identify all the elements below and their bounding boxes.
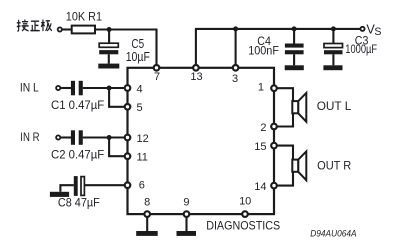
pin 15	[271, 143, 277, 149]
ground below pin8	[136, 231, 158, 236]
ground below pin9	[177, 231, 197, 236]
svg-text:1: 1	[258, 82, 264, 94]
svg-text:11: 11	[137, 152, 148, 164]
wire IN L to C1	[61, 87, 71, 89]
wire IN R to C2	[61, 136, 71, 138]
ground below C4	[285, 65, 304, 70]
wire C3 top lead	[332, 29, 334, 44]
svg-text:12: 12	[137, 133, 149, 145]
svg-text:9: 9	[183, 197, 189, 209]
wire C2 to pin12	[83, 136, 124, 138]
terminal Vs	[360, 27, 364, 31]
svg-text:IN L: IN L	[20, 80, 39, 94]
svg-text:3: 3	[232, 73, 238, 85]
capacitor C4	[285, 44, 304, 66]
svg-text:10: 10	[239, 196, 251, 208]
svg-text:15: 15	[254, 141, 266, 153]
svg-text:5: 5	[137, 102, 143, 114]
wire pin1 to speaker L top	[274, 88, 293, 126]
svg-text:14: 14	[254, 181, 266, 193]
terminal IN L	[56, 86, 60, 90]
char 正	[30, 21, 39, 30]
char 极	[41, 20, 52, 32]
svg-text:100nF: 100nF	[248, 44, 279, 58]
svg-text:6: 6	[139, 180, 145, 192]
node junction C2/pin12/pin11	[107, 135, 112, 140]
speaker OUT L	[292, 93, 306, 122]
wire branch to pin11	[109, 138, 124, 157]
pin 10	[242, 211, 248, 217]
op-amp IC box	[128, 68, 275, 214]
pin 14	[271, 183, 277, 189]
pin 7	[154, 65, 160, 71]
wire pin8 ground stub	[146, 218, 148, 232]
svg-text:S: S	[374, 26, 381, 38]
svg-text:13: 13	[190, 71, 202, 83]
ground below C3	[323, 65, 342, 70]
svg-text:OUT L: OUT L	[317, 99, 352, 113]
svg-text:C2 0.47µF: C2 0.47µF	[51, 149, 104, 162]
pin 8	[144, 211, 150, 217]
svg-text:4: 4	[137, 83, 143, 95]
capacitor C5	[99, 43, 118, 63]
pin 13	[193, 65, 199, 71]
pin 11	[125, 153, 131, 159]
terminal IN R	[56, 135, 60, 139]
speaker OUT R	[292, 151, 306, 180]
ground at C8	[50, 185, 74, 197]
svg-text:2: 2	[260, 122, 266, 134]
svg-text:7: 7	[154, 71, 160, 83]
wire pin9 ground stub	[185, 218, 187, 232]
capacitor C2	[71, 130, 83, 145]
wire C5 top lead	[108, 30, 110, 44]
pin 12	[125, 135, 131, 141]
terminal 接正极	[58, 27, 62, 31]
wire pin15 to speaker R top	[274, 146, 293, 186]
wire top rail A from terminal to R1	[62, 28, 71, 30]
svg-text:C8 47µF: C8 47µF	[58, 195, 100, 209]
svg-text:OUT R: OUT R	[317, 159, 351, 173]
pin 3	[233, 65, 239, 71]
svg-text:1000µF: 1000µF	[345, 42, 377, 56]
wire branch to pin5	[109, 88, 124, 107]
wire top rail B with pin13 drop	[196, 29, 362, 64]
node junction C4	[292, 26, 297, 31]
wire top rail A from R1 to pin7 drop	[95, 30, 157, 65]
node junction R1/C5/rail	[107, 27, 112, 32]
pin 5	[125, 104, 131, 110]
wire pin3 drop	[235, 29, 237, 64]
svg-text:DIAGNOSTICS: DIAGNOSTICS	[206, 219, 280, 233]
node junction C3	[331, 26, 336, 31]
capacitor C3	[324, 44, 343, 66]
svg-text:10K R1: 10K R1	[66, 10, 102, 24]
wire C4 top lead	[293, 29, 295, 44]
char 接	[17, 20, 29, 32]
label 接正极 (drawn strokes)	[17, 20, 52, 32]
pin 4	[125, 85, 131, 91]
capacitor C1	[71, 81, 83, 96]
svg-text:C5: C5	[131, 37, 144, 51]
capacitor C8	[74, 176, 85, 196]
node junction pin3 drop	[233, 26, 238, 31]
wire C8 to pin6	[85, 184, 124, 186]
pin 1	[271, 85, 277, 91]
svg-text:C1 0.47µF: C1 0.47µF	[51, 99, 104, 112]
resistor R1	[72, 26, 95, 34]
svg-text:10µF: 10µF	[126, 50, 150, 64]
pin 9	[184, 211, 190, 217]
ground below C5	[98, 64, 119, 69]
svg-text:8: 8	[144, 197, 150, 209]
pin 6	[125, 182, 131, 188]
pin 2	[271, 124, 277, 130]
node junction C1/pin4/pin5	[107, 86, 112, 91]
wire C1 to pin4	[83, 87, 124, 89]
svg-text:IN R: IN R	[20, 130, 39, 144]
svg-text:D94AU064A: D94AU064A	[310, 228, 356, 239]
